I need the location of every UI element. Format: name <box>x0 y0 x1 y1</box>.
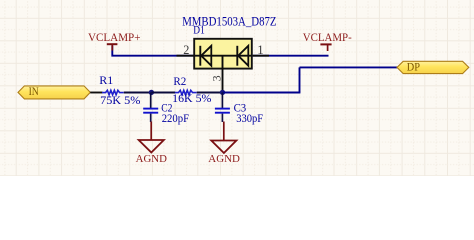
svg-text:2: 2 <box>183 43 189 57</box>
wire W1: VCLAMP+ stub to D1 pin 2 <box>112 46 193 56</box>
power port VCLAMP+ <box>107 44 118 50</box>
svg-text:VCLAMP-: VCLAMP- <box>303 31 352 44</box>
svg-text:75K 5%: 75K 5% <box>100 94 141 107</box>
diode D1 middle conductor <box>195 55 252 57</box>
pin 3 of D1 <box>222 56 224 93</box>
power port AGND (left) <box>139 122 164 153</box>
svg-text:R1: R1 <box>99 74 113 87</box>
wire W5: node A to R2 <box>152 92 176 94</box>
junction node A <box>149 90 154 95</box>
svg-text:D1: D1 <box>193 24 205 37</box>
svg-text:DP: DP <box>407 61 421 74</box>
wire W3: IN to R1 <box>90 92 102 94</box>
wire W6: R2 to node B <box>197 92 223 94</box>
svg-text:16K 5%: 16K 5% <box>172 92 211 105</box>
wire W7: node B to riser <box>223 92 301 94</box>
svg-text:330pF: 330pF <box>236 112 263 125</box>
wire W2: D1 pin 1 to VCLAMP- stub <box>253 55 329 57</box>
pin 1 of D1 <box>253 55 269 57</box>
svg-text:1: 1 <box>257 43 263 57</box>
svg-text:3: 3 <box>210 75 224 81</box>
port DP <box>397 61 469 74</box>
pin 2 of D1 <box>177 55 194 57</box>
power port VCLAMP- <box>320 44 331 51</box>
svg-text:VCLAMP+: VCLAMP+ <box>88 31 141 44</box>
diode D1 right diode (cathode bar + triangle) <box>237 46 248 66</box>
diode D1 left diode (cathode bar + triangle) <box>200 46 211 66</box>
svg-text:IN: IN <box>29 85 40 98</box>
port IN <box>18 85 90 99</box>
svg-text:R2: R2 <box>173 75 186 88</box>
resistor R2 <box>175 90 197 95</box>
svg-text:AGND: AGND <box>208 154 240 165</box>
wire W4: R1 to node A <box>124 92 152 94</box>
svg-text:220pF: 220pF <box>162 112 190 125</box>
svg-text:AGND: AGND <box>136 154 168 165</box>
resistor R1 <box>102 90 124 95</box>
power port AGND (right) <box>211 122 236 154</box>
wire W8: riser up <box>299 67 301 92</box>
capacitor C2 <box>143 93 158 123</box>
junction node B <box>220 90 225 95</box>
wire W9: riser to DP port <box>300 66 398 68</box>
diode D1 body <box>194 39 252 69</box>
capacitor C3 <box>215 93 230 123</box>
